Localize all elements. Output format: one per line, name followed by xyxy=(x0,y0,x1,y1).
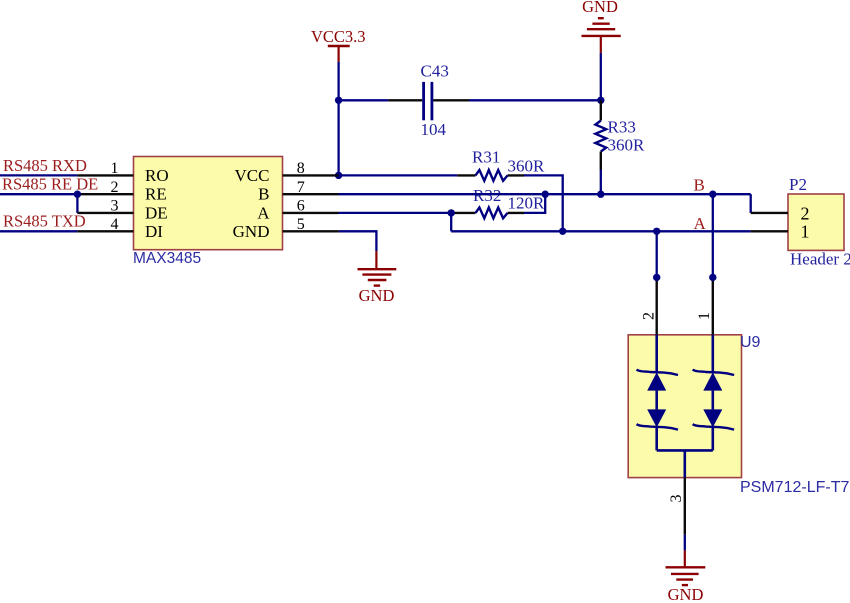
wire C43 left blue xyxy=(339,99,389,101)
svg-text:RS485 TXD: RS485 TXD xyxy=(3,211,86,230)
U9 diode D1a zener bar xyxy=(637,370,679,375)
junction R32 / A corner xyxy=(448,209,455,216)
junction VCC / pin8 row xyxy=(335,172,342,179)
U9 channel 2 top wire xyxy=(711,335,714,372)
P2 pin 1 stub xyxy=(751,230,788,232)
resistor R31 right lead xyxy=(508,174,524,176)
svg-text:B: B xyxy=(258,185,269,204)
svg-text:R33: R33 xyxy=(608,118,636,137)
wire C43 right blue xyxy=(469,99,601,101)
U9 channel 2 bottom wire xyxy=(711,427,714,450)
junction R31 / A row xyxy=(559,228,566,235)
wire B branch down to U9 xyxy=(712,194,714,277)
U9 bottom rail xyxy=(657,449,713,452)
wire B jog down xyxy=(750,194,752,213)
svg-text:A: A xyxy=(694,214,707,233)
junction VCC / C43 xyxy=(335,97,342,104)
junction on U9 pin1 xyxy=(709,274,716,281)
wire pin8 row to R31 xyxy=(339,174,458,176)
svg-text:1: 1 xyxy=(801,222,810,242)
wire top gnd down xyxy=(600,53,602,100)
wire A branch down to U9 xyxy=(656,231,658,277)
U9 diode D1b triangle (apex down) xyxy=(647,409,666,427)
TVS U9 body xyxy=(628,335,741,478)
capacitor C1 left lead xyxy=(388,99,422,101)
junction R32 / B row xyxy=(542,191,549,198)
VCC3.3 bar symbol xyxy=(328,45,350,48)
wire VCC down xyxy=(337,62,339,176)
U9 channel 1 mid wire xyxy=(655,391,658,410)
svg-text:R31: R31 xyxy=(472,147,500,166)
resistor R33 zigzag xyxy=(595,121,606,152)
ground (bottom) stub xyxy=(684,550,686,567)
svg-text:RO: RO xyxy=(145,166,169,185)
wire RE DE label xyxy=(0,193,77,195)
ground (below IC) bars xyxy=(358,268,397,270)
svg-text:GND: GND xyxy=(668,585,704,603)
junction B / P2-U9 branch xyxy=(709,191,716,198)
ground (below IC) stub xyxy=(375,251,377,269)
wire A row xyxy=(451,230,751,232)
svg-text:GND: GND xyxy=(233,222,270,241)
pin 4 stub xyxy=(77,230,133,232)
resistor R31 left lead xyxy=(457,174,475,176)
svg-text:360R: 360R xyxy=(508,156,546,175)
resistor R32 left lead xyxy=(451,212,475,214)
pin 7 stub xyxy=(283,193,339,195)
ground (bottom) bars xyxy=(666,566,706,568)
svg-text:RS485 RE DE: RS485 RE DE xyxy=(2,174,98,193)
svg-text:U9: U9 xyxy=(740,334,761,351)
wire TXD label to pin 4 xyxy=(0,230,77,232)
wire R33 to B row xyxy=(600,170,602,195)
junction RE DE xyxy=(74,191,81,198)
U9 channel 1 bottom wire xyxy=(655,427,658,450)
wire R31 to A row xyxy=(524,175,563,231)
pin 8 stub xyxy=(283,174,339,176)
pin 5 stub xyxy=(283,230,339,232)
pin 2 stub xyxy=(77,193,133,195)
U9 diode D1a triangle (apex up) xyxy=(647,372,666,390)
junction A / U9 branch xyxy=(653,228,660,235)
U9 diode D2a triangle (apex up) xyxy=(703,372,722,390)
svg-text:1: 1 xyxy=(696,312,713,320)
svg-text:104: 104 xyxy=(421,120,447,139)
U9 pin 3 lead xyxy=(684,478,686,535)
wire RE-DE vertical branch xyxy=(76,194,78,213)
junction on U9 pin2 xyxy=(653,274,660,281)
svg-text:DI: DI xyxy=(145,222,163,241)
resistor R31 zigzag xyxy=(476,170,508,181)
svg-text:GND: GND xyxy=(582,0,618,16)
wire pin3 to gnd xyxy=(684,535,686,551)
resistor R33 top lead xyxy=(600,100,602,120)
svg-text:R32: R32 xyxy=(473,186,501,205)
P2 pin 2 stub xyxy=(751,212,788,214)
IC U-MAX3485 body xyxy=(134,157,283,250)
wire R32 riser to B row xyxy=(524,194,545,213)
VCC3.3 stub red xyxy=(338,46,340,62)
pin 6 stub xyxy=(283,212,339,214)
junction GND / C43 / R33 xyxy=(597,97,604,104)
U9 channel 1 top wire xyxy=(655,335,658,372)
svg-text:P2: P2 xyxy=(789,175,807,194)
U9 diode D2b triangle (apex down) xyxy=(703,409,722,427)
U9 pin 1 lead xyxy=(712,277,714,334)
connector P2 body xyxy=(788,194,844,250)
resistor R32 right lead xyxy=(508,212,524,214)
ground (top) bars xyxy=(598,17,604,19)
svg-text:2: 2 xyxy=(801,203,810,223)
svg-text:VCC: VCC xyxy=(235,166,270,185)
svg-text:PSM712-LF-T7: PSM712-LF-T7 xyxy=(740,479,849,496)
U9 diode D2a zener bar xyxy=(693,370,735,375)
wire RXD label to pin 1 xyxy=(0,174,77,176)
resistor R33 bottom lead xyxy=(600,152,602,170)
wire pin5 to gnd xyxy=(339,231,377,251)
capacitor C43 plates xyxy=(422,82,425,120)
U9 channel 2 mid wire xyxy=(711,391,714,410)
wire pin6 to R32 junction xyxy=(339,212,452,214)
svg-text:A: A xyxy=(257,203,270,222)
wire A drop xyxy=(450,213,452,231)
capacitor C43 right lead xyxy=(433,99,469,101)
wire B row xyxy=(339,193,751,195)
U9 diode D2b zener bar xyxy=(693,424,735,429)
U9 center drop to pin 3 xyxy=(683,450,686,477)
U9 pin 2 lead xyxy=(656,277,658,334)
svg-text:B: B xyxy=(694,176,705,195)
svg-text:2: 2 xyxy=(641,312,658,320)
svg-text:360R: 360R xyxy=(608,136,646,155)
resistor R32 zigzag xyxy=(476,208,508,219)
pin 3 stub xyxy=(77,212,133,214)
svg-text:RS485 RXD: RS485 RXD xyxy=(3,156,87,175)
svg-text:MAX3485: MAX3485 xyxy=(133,250,201,267)
junction R33 / B row xyxy=(597,191,604,198)
svg-text:RE: RE xyxy=(145,185,167,204)
ground (top) stub xyxy=(600,36,602,53)
U9 diode D1b zener bar xyxy=(637,424,679,429)
svg-text:DE: DE xyxy=(145,203,168,222)
svg-text:C43: C43 xyxy=(421,62,449,81)
svg-text:Header 2: Header 2 xyxy=(790,250,850,269)
svg-text:120R: 120R xyxy=(508,194,546,213)
svg-text:GND: GND xyxy=(359,286,395,305)
pin 1 stub xyxy=(77,174,133,176)
svg-text:3: 3 xyxy=(668,495,685,503)
svg-text:VCC3.3: VCC3.3 xyxy=(311,27,366,46)
